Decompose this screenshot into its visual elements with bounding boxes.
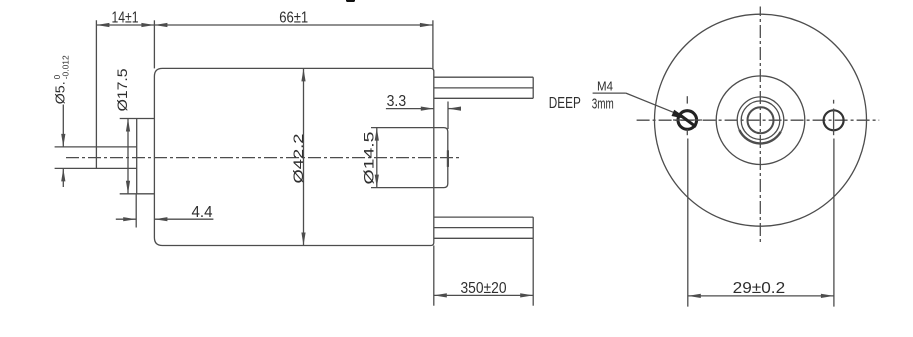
svg-text:29±0.2: 29±0.2 <box>733 280 786 297</box>
svg-text:66±1: 66±1 <box>279 10 308 27</box>
svg-text:-0.012: -0.012 <box>62 55 71 80</box>
svg-text:Ø42.2: Ø42.2 <box>291 134 306 184</box>
svg-text:M4: M4 <box>597 80 613 94</box>
svg-text:4.4: 4.4 <box>192 204 213 221</box>
svg-text:Ø14.5: Ø14.5 <box>362 132 377 185</box>
svg-text:Ø5.: Ø5. <box>53 81 68 104</box>
svg-text:3mm: 3mm <box>592 96 614 113</box>
svg-text:Ø17.5: Ø17.5 <box>115 68 130 111</box>
svg-text:DEEP: DEEP <box>549 95 581 112</box>
svg-text:3.3: 3.3 <box>387 93 407 110</box>
svg-text:350±20: 350±20 <box>461 280 507 297</box>
svg-text:14±1: 14±1 <box>112 10 139 27</box>
